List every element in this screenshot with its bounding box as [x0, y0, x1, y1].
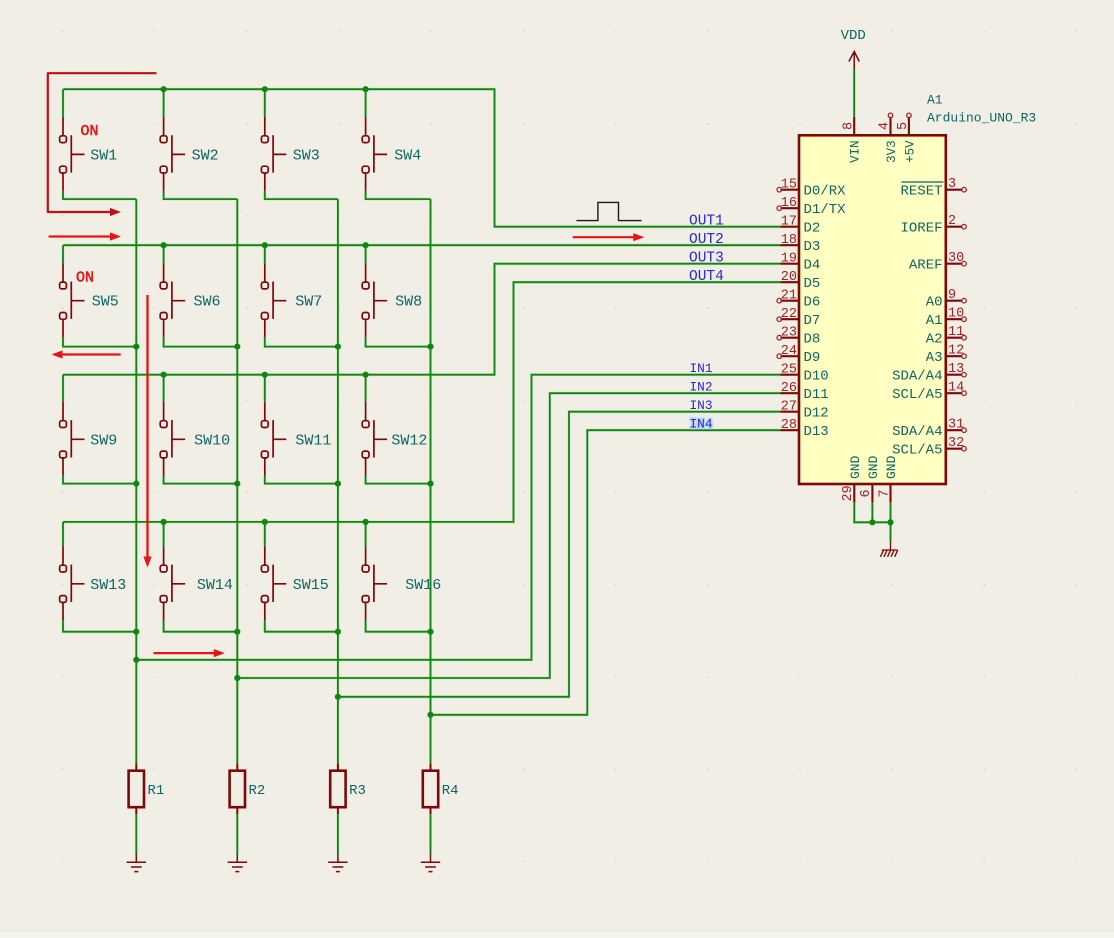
- svg-text:D9: D9: [804, 350, 821, 366]
- svg-text:R3: R3: [349, 783, 366, 799]
- svg-text:GND: GND: [884, 455, 899, 479]
- svg-text:D7: D7: [804, 313, 821, 329]
- svg-text:5: 5: [896, 122, 911, 130]
- svg-text:D6: D6: [804, 295, 821, 311]
- svg-text:SCL/A5: SCL/A5: [892, 443, 942, 459]
- svg-text:29: 29: [841, 485, 856, 501]
- svg-text:OUT4: OUT4: [689, 269, 724, 285]
- svg-text:9: 9: [948, 288, 956, 303]
- svg-text:27: 27: [781, 400, 797, 415]
- svg-text:SW8: SW8: [395, 294, 422, 311]
- svg-text:11: 11: [948, 325, 964, 340]
- svg-text:3V3: 3V3: [885, 140, 899, 163]
- svg-text:SW15: SW15: [293, 577, 329, 594]
- svg-text:SW16: SW16: [405, 577, 441, 594]
- svg-text:IOREF: IOREF: [900, 221, 942, 237]
- svg-text:12: 12: [948, 344, 964, 359]
- svg-text:VIN: VIN: [849, 140, 863, 163]
- svg-text:SW6: SW6: [194, 294, 221, 311]
- svg-text:SCL/A5: SCL/A5: [892, 387, 942, 403]
- svg-text:10: 10: [948, 307, 964, 322]
- svg-text:D12: D12: [804, 406, 829, 422]
- svg-text:IN3: IN3: [690, 398, 713, 413]
- svg-text:ON: ON: [76, 270, 94, 287]
- svg-text:R4: R4: [442, 783, 459, 799]
- svg-text:24: 24: [781, 344, 797, 359]
- svg-text:28: 28: [781, 418, 797, 433]
- svg-text:A1: A1: [927, 92, 943, 107]
- svg-text:R1: R1: [148, 783, 165, 799]
- svg-text:17: 17: [781, 215, 797, 230]
- svg-text:A3: A3: [926, 350, 943, 366]
- svg-text:D4: D4: [804, 258, 821, 274]
- svg-text:IN1: IN1: [690, 361, 713, 376]
- svg-text:SW11: SW11: [295, 432, 331, 449]
- svg-text:OUT2: OUT2: [689, 232, 724, 248]
- svg-text:Arduino_UNO_R3: Arduino_UNO_R3: [927, 110, 1036, 125]
- svg-text:D8: D8: [804, 332, 821, 348]
- svg-text:13: 13: [948, 362, 964, 377]
- svg-text:8: 8: [841, 122, 856, 130]
- svg-text:AREF: AREF: [909, 258, 943, 274]
- svg-text:+5V: +5V: [903, 140, 917, 163]
- svg-text:OUT3: OUT3: [689, 251, 724, 267]
- svg-text:D5: D5: [804, 276, 821, 292]
- svg-text:RESET: RESET: [900, 184, 942, 200]
- svg-text:SW2: SW2: [192, 147, 219, 164]
- svg-text:20: 20: [781, 270, 797, 285]
- svg-text:A0: A0: [926, 295, 943, 311]
- svg-text:IN2: IN2: [690, 380, 713, 395]
- svg-text:D1/TX: D1/TX: [804, 202, 847, 218]
- svg-text:A2: A2: [926, 332, 943, 348]
- svg-text:SDA/A4: SDA/A4: [892, 369, 942, 385]
- svg-text:ON: ON: [81, 123, 99, 140]
- svg-text:SW7: SW7: [295, 294, 322, 311]
- svg-text:SW4: SW4: [394, 147, 421, 164]
- svg-text:2: 2: [948, 214, 956, 229]
- svg-text:SW14: SW14: [197, 577, 233, 594]
- svg-text:SW1: SW1: [90, 147, 117, 164]
- svg-text:22: 22: [781, 307, 797, 322]
- svg-text:R2: R2: [249, 783, 266, 799]
- svg-text:VDD: VDD: [841, 28, 866, 44]
- svg-text:26: 26: [781, 381, 797, 396]
- svg-text:19: 19: [781, 252, 797, 267]
- svg-text:D0/RX: D0/RX: [804, 184, 847, 200]
- svg-text:SW9: SW9: [90, 432, 117, 449]
- svg-text:GND: GND: [848, 455, 863, 479]
- svg-text:6: 6: [859, 489, 874, 497]
- svg-text:SDA/A4: SDA/A4: [892, 424, 942, 440]
- svg-text:SW10: SW10: [194, 432, 230, 449]
- svg-text:21: 21: [781, 289, 797, 304]
- svg-text:SW5: SW5: [92, 294, 119, 311]
- svg-text:23: 23: [781, 326, 797, 341]
- svg-text:16: 16: [781, 196, 797, 211]
- svg-text:D11: D11: [804, 387, 829, 403]
- svg-text:GND: GND: [866, 455, 881, 479]
- svg-text:D10: D10: [804, 369, 829, 385]
- svg-text:OUT1: OUT1: [689, 214, 724, 230]
- svg-text:IN4: IN4: [690, 417, 713, 432]
- svg-text:14: 14: [948, 381, 964, 396]
- svg-text:SW13: SW13: [90, 577, 126, 594]
- svg-text:A1: A1: [926, 313, 943, 329]
- svg-text:30: 30: [948, 251, 964, 266]
- svg-text:31: 31: [948, 418, 964, 433]
- svg-text:4: 4: [878, 122, 893, 130]
- svg-text:D3: D3: [804, 239, 821, 255]
- svg-text:SW3: SW3: [293, 147, 320, 164]
- svg-text:18: 18: [781, 233, 797, 248]
- svg-text:15: 15: [781, 178, 797, 193]
- svg-text:D13: D13: [804, 424, 829, 440]
- svg-text:3: 3: [948, 177, 956, 192]
- svg-text:7: 7: [877, 489, 892, 497]
- svg-text:D2: D2: [804, 221, 821, 237]
- svg-text:32: 32: [948, 436, 964, 451]
- svg-text:SW12: SW12: [391, 432, 427, 449]
- svg-text:25: 25: [781, 363, 797, 378]
